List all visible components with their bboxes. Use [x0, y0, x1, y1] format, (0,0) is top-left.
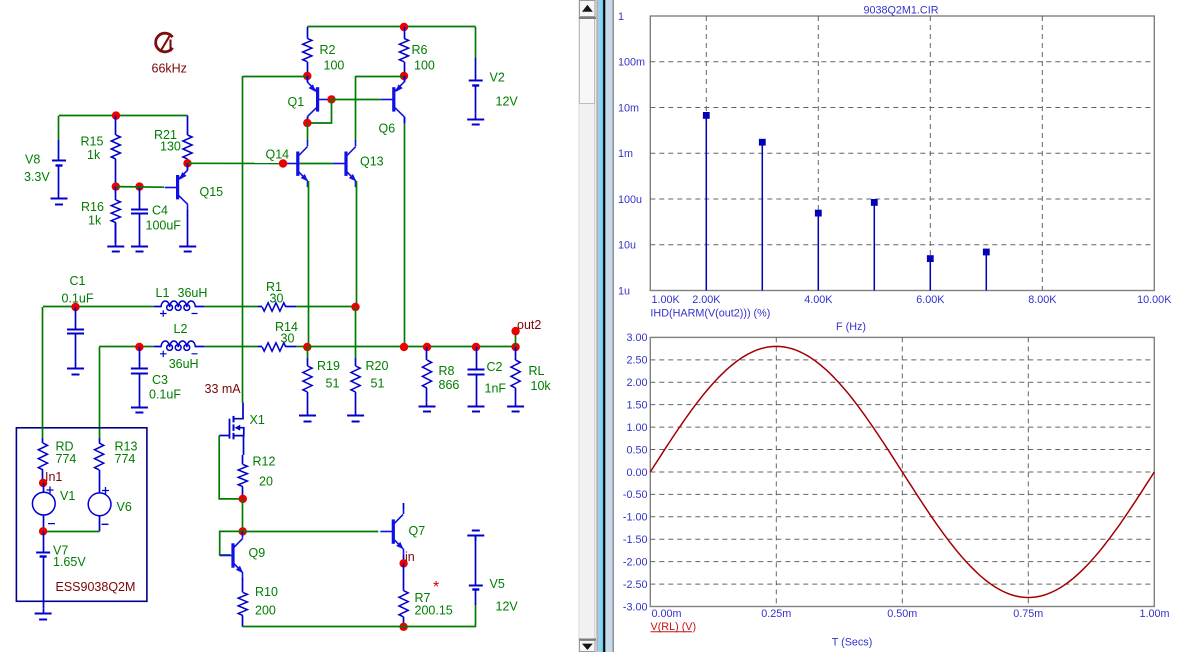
- svg-text:4.00K: 4.00K: [804, 294, 833, 306]
- resistor R13: [95, 438, 104, 493]
- window splitter: [597, 0, 615, 652]
- wire V5 to rail: [475, 605, 477, 627]
- ground: [35, 608, 52, 619]
- svg-text:10k: 10k: [531, 379, 552, 393]
- wire L2 to R14: [205, 346, 258, 348]
- resistor R6: [399, 27, 408, 76]
- plot2 x-axis labels: [652, 608, 1170, 620]
- node Q14 base: [279, 159, 287, 167]
- wire X1 gate down: [219, 436, 243, 499]
- svg-text:T (Secs): T (Secs): [832, 637, 873, 649]
- ground: [51, 193, 68, 205]
- wire V2 drop: [475, 27, 477, 58]
- svg-text:0.50m: 0.50m: [887, 608, 917, 620]
- resistor R20: [351, 358, 360, 412]
- svg-text:1nF: 1nF: [485, 382, 507, 396]
- svg-text:0.25m: 0.25m: [761, 608, 791, 620]
- node R12 bottom: [239, 495, 247, 503]
- node in: [399, 559, 407, 567]
- svg-text:866: 866: [439, 378, 460, 392]
- svg-text:1k: 1k: [88, 214, 102, 228]
- svg-text:66kHz: 66kHz: [152, 62, 187, 76]
- capacitor C4: [131, 187, 148, 243]
- svg-text:V2: V2: [490, 71, 505, 85]
- node R14 right: [303, 343, 311, 351]
- wire Q15 base: [116, 186, 164, 189]
- plot1 horizontal gridlines: [650, 62, 1154, 245]
- box ESS9038Q2M: [16, 428, 147, 602]
- wire Q6 collector down: [404, 124, 406, 347]
- node R15-R16 junction: [112, 182, 120, 190]
- logo mark: [156, 33, 173, 52]
- node Q1 collector: [303, 119, 311, 127]
- svg-text:1.00: 1.00: [626, 422, 647, 434]
- node out2: [511, 327, 519, 335]
- svg-text:1.50: 1.50: [626, 399, 647, 411]
- wire Q9 base route: [220, 531, 243, 555]
- svg-text:IHD(HARM(V(out2))) (%): IHD(HARM(V(out2))) (%): [650, 308, 770, 320]
- plot1 harmonic stems: [703, 112, 990, 291]
- wire Q14 emitter down: [308, 181, 310, 347]
- node In1: [39, 479, 47, 487]
- svg-text:Q15: Q15: [200, 185, 224, 199]
- svg-text:8.00K: 8.00K: [1028, 294, 1057, 306]
- wire Q1 base-collector tie: [307, 99, 331, 123]
- svg-text:30: 30: [281, 332, 295, 346]
- svg-text:1m: 1m: [618, 148, 633, 160]
- svg-text:C2: C2: [487, 360, 503, 374]
- resistor R15: [111, 116, 120, 187]
- node R6 top: [400, 23, 408, 31]
- polarity L2: [160, 351, 198, 358]
- inductor L1: [154, 301, 205, 310]
- svg-text:V6: V6: [117, 500, 132, 514]
- wire row1 left: [43, 306, 154, 308]
- wire R19 drop: [307, 347, 309, 358]
- plot2 vertical gridlines: [776, 337, 1028, 606]
- ground: [419, 403, 436, 412]
- source V6: [88, 487, 111, 531]
- node C4 junction: [135, 182, 143, 190]
- wire Q6 collector stub: [404, 117, 406, 124]
- svg-text:100uF: 100uF: [146, 219, 182, 233]
- svg-text:-2.00: -2.00: [623, 556, 648, 568]
- resistor R12: [238, 455, 247, 499]
- wire R1 to node: [296, 306, 356, 308]
- node R15 top junction: [112, 111, 120, 119]
- svg-text:R6: R6: [412, 43, 428, 57]
- svg-text:R20: R20: [366, 359, 389, 373]
- svg-text:0.50: 0.50: [626, 444, 647, 456]
- svg-text:L2: L2: [174, 322, 188, 336]
- svg-text:6.00K: 6.00K: [916, 294, 945, 306]
- node Q1 base: [327, 95, 335, 103]
- ground: [299, 412, 316, 422]
- svg-text:1u: 1u: [618, 285, 630, 297]
- resistor R16: [111, 187, 120, 243]
- wire R12 to Q9 node: [242, 499, 244, 532]
- svg-text:0.00m: 0.00m: [652, 608, 682, 620]
- svg-text:V1: V1: [60, 489, 75, 503]
- ground: [131, 243, 148, 252]
- svg-text:R12: R12: [253, 455, 276, 469]
- svg-text:In1: In1: [45, 470, 62, 484]
- svg-text:0.00: 0.00: [626, 467, 647, 479]
- plot2 y-axis labels: [623, 332, 648, 613]
- wire Q1 collector stub: [307, 117, 309, 123]
- transistor Q7: [380, 508, 403, 555]
- svg-text:Q6: Q6: [379, 122, 396, 136]
- svg-text:100: 100: [414, 59, 435, 73]
- wire RD top: [42, 307, 44, 438]
- svg-text:C1: C1: [70, 274, 86, 288]
- svg-text:774: 774: [56, 452, 77, 466]
- svg-text:100: 100: [324, 59, 345, 73]
- ground: [179, 243, 196, 252]
- svg-text:100m: 100m: [618, 57, 645, 69]
- svg-text:Q1: Q1: [288, 95, 305, 109]
- wire R20 drop: [355, 307, 357, 358]
- svg-text:33 mA: 33 mA: [205, 382, 242, 396]
- svg-text:774: 774: [115, 452, 136, 466]
- svg-text:Q13: Q13: [360, 155, 384, 169]
- svg-text:R19: R19: [317, 359, 340, 373]
- wire Q7 collector stub: [403, 503, 405, 509]
- svg-text:1.00K: 1.00K: [652, 294, 681, 306]
- scrollbar thumb: [580, 19, 595, 104]
- wire Q1 base to Q6 base: [332, 99, 381, 101]
- svg-text:9038Q2M1.CIR: 9038Q2M1.CIR: [863, 4, 938, 16]
- transistor Q13: [333, 140, 356, 187]
- wire Q15 emitter: [187, 163, 189, 170]
- plot1 x-axis labels: [652, 294, 1173, 306]
- svg-text:1.65V: 1.65V: [53, 555, 86, 569]
- battery V7: [36, 531, 50, 608]
- svg-text:in: in: [405, 550, 415, 564]
- svg-text:C3: C3: [152, 373, 168, 387]
- svg-text:3.00: 3.00: [626, 332, 647, 344]
- wire Q1coll to Q14: [307, 123, 309, 141]
- wire Q15 collector: [187, 210, 189, 243]
- svg-text:3.3V: 3.3V: [24, 170, 50, 184]
- svg-text:51: 51: [326, 377, 340, 391]
- polarity L1: [160, 310, 198, 317]
- node R1 right: [351, 303, 359, 311]
- svg-text:F (Hz): F (Hz): [836, 321, 866, 333]
- wire left rail vertical: [242, 76, 244, 403]
- wire Q6 emitter stub: [404, 76, 406, 82]
- wire out2 row: [307, 346, 515, 348]
- svg-text:10u: 10u: [618, 240, 636, 252]
- transistor Q1: [307, 76, 330, 123]
- svg-text:12V: 12V: [496, 600, 519, 614]
- ground: [67, 367, 84, 375]
- resistor R10: [238, 588, 247, 627]
- battery V5: [469, 536, 483, 606]
- battery V2: [469, 58, 483, 114]
- wire Q9 emitter stub: [242, 578, 244, 588]
- wire Q7 emitter to in: [403, 555, 405, 564]
- wire V6 to V1: [43, 531, 100, 533]
- svg-text:0.1uF: 0.1uF: [149, 388, 181, 402]
- plot2 frame: [650, 337, 1154, 606]
- wire Q14 base dot stub: [283, 163, 285, 165]
- node R8 top: [423, 343, 431, 351]
- svg-text:1: 1: [618, 11, 624, 23]
- node V1 bottom: [39, 527, 47, 535]
- plot2 legend V(RL): [651, 621, 697, 633]
- svg-text:*: *: [433, 579, 439, 596]
- ground: [347, 412, 364, 422]
- source V1: [32, 483, 55, 531]
- transistor Q9: [220, 532, 243, 579]
- svg-text:36uH: 36uH: [169, 357, 199, 371]
- wire Q9 to Q7 base: [243, 531, 379, 533]
- plot pane background: [614, 0, 1179, 652]
- plot1 frame: [650, 16, 1154, 291]
- svg-text:100u: 100u: [618, 194, 642, 206]
- resistor R7: [399, 563, 408, 626]
- wire bottom rail: [243, 626, 476, 628]
- svg-text:R16: R16: [81, 200, 104, 214]
- node R7 bottom rail: [399, 623, 407, 631]
- svg-text:36uH: 36uH: [178, 286, 208, 300]
- wire R21 to Q14 base: [188, 162, 284, 164]
- inductor L2: [154, 341, 205, 350]
- ground: [107, 223, 124, 252]
- ground: [467, 531, 484, 542]
- svg-text:2.50: 2.50: [626, 355, 647, 367]
- wire Q9 collector stub: [242, 531, 244, 533]
- resistor R8: [422, 347, 431, 403]
- resistor R14: [258, 343, 296, 351]
- svg-text:130: 130: [160, 140, 181, 154]
- scrollbar up button: [579, 1, 596, 20]
- svg-text:0.75m: 0.75m: [1013, 608, 1043, 620]
- svg-text:51: 51: [371, 377, 385, 391]
- svg-text:1.00m: 1.00m: [1139, 608, 1169, 620]
- plot2 sine curve V(RL): [650, 346, 1154, 597]
- resistor R1: [258, 303, 296, 311]
- node C1 top: [71, 303, 79, 311]
- svg-text:10.00K: 10.00K: [1137, 294, 1172, 306]
- ground: [131, 405, 148, 413]
- svg-text:R10: R10: [255, 585, 278, 599]
- battery V8: [52, 140, 66, 193]
- transistor Q6: [381, 76, 405, 123]
- plot1 y-axis labels: [618, 11, 645, 298]
- schematic scrollbar track: [579, 0, 597, 652]
- node row2-Q6Q7: [400, 343, 408, 351]
- plot2 horizontal gridlines: [650, 360, 1154, 584]
- svg-text:RL: RL: [529, 364, 545, 378]
- wire Q6emitter to Q13: [356, 76, 405, 78]
- node Q1 emitter: [303, 72, 311, 80]
- svg-text:Q7: Q7: [409, 524, 426, 538]
- svg-text:2.00K: 2.00K: [692, 294, 721, 306]
- wire out2 stub: [515, 331, 517, 347]
- svg-text:V8: V8: [25, 153, 40, 167]
- wire Q13 collector vertical: [355, 76, 357, 141]
- svg-text:-1.50: -1.50: [623, 534, 648, 546]
- svg-text:V5: V5: [490, 577, 505, 591]
- scrollbar down button: [579, 639, 596, 652]
- wire row2 left: [99, 346, 154, 348]
- svg-text:1k: 1k: [87, 148, 101, 162]
- wire top rail: [307, 26, 475, 28]
- transistor Q14: [285, 140, 308, 187]
- schematic background: [0, 0, 578, 652]
- transistor Q15: [165, 164, 188, 211]
- wire Q14-Q13 base tie: [300, 163, 334, 165]
- wire Q1 emitter stub: [307, 76, 309, 82]
- node RL top: [511, 343, 519, 351]
- wire L1 to R1: [205, 306, 258, 308]
- capacitor C1: [67, 307, 84, 367]
- resistor RD: [38, 438, 47, 483]
- svg-text:10m: 10m: [618, 102, 639, 114]
- capacitor C2: [468, 347, 485, 403]
- ground: [507, 403, 524, 412]
- svg-text:V(RL) (V): V(RL) (V): [651, 621, 697, 633]
- svg-text:out2: out2: [517, 318, 541, 332]
- svg-text:-2.50: -2.50: [623, 579, 648, 591]
- ground: [468, 403, 485, 412]
- svg-text:-1.00: -1.00: [623, 512, 648, 524]
- wire row2 left vertical: [99, 347, 101, 438]
- svg-text:-0.50: -0.50: [623, 489, 648, 501]
- svg-text:0.1uF: 0.1uF: [62, 292, 94, 306]
- resistor R19: [303, 358, 312, 412]
- svg-text:200.15: 200.15: [415, 604, 453, 618]
- svg-text:Q9: Q9: [249, 546, 266, 560]
- svg-text:12V: 12V: [496, 95, 519, 109]
- svg-text:Q14: Q14: [266, 148, 290, 162]
- plot1 vertical gridlines: [706, 16, 1042, 291]
- node R21-Q15 junction: [183, 159, 191, 167]
- capacitor C3: [131, 347, 148, 405]
- node C3 top: [135, 343, 143, 351]
- wire Q1emitter to left rail: [243, 76, 307, 78]
- svg-text:R2: R2: [320, 43, 336, 57]
- svg-text:2.00: 2.00: [626, 377, 647, 389]
- resistor RL: [511, 347, 520, 403]
- svg-text:200: 200: [255, 604, 276, 618]
- mosfet X1: [219, 403, 244, 456]
- wire V8 drop: [58, 116, 60, 140]
- resistor R2: [303, 27, 312, 76]
- svg-text:20: 20: [259, 475, 273, 489]
- wire Q13 emitter down: [356, 181, 358, 307]
- svg-text:L1: L1: [156, 286, 170, 300]
- svg-text:R8: R8: [439, 364, 455, 378]
- node Q6 emitter: [400, 72, 408, 80]
- ground: [467, 114, 484, 125]
- resistor R21: [183, 116, 192, 164]
- svg-text:30: 30: [270, 292, 284, 306]
- svg-text:-3.00: -3.00: [623, 601, 648, 613]
- wire V8 top rail: [59, 115, 188, 117]
- svg-text:C4: C4: [152, 204, 168, 218]
- svg-text:R15: R15: [81, 135, 104, 149]
- wire R14 to node: [296, 346, 307, 348]
- node C2 top: [472, 343, 480, 351]
- svg-text:ESS9038Q2M: ESS9038Q2M: [56, 580, 136, 594]
- svg-text:X1: X1: [250, 413, 265, 427]
- node Q9 base-collector: [239, 527, 247, 535]
